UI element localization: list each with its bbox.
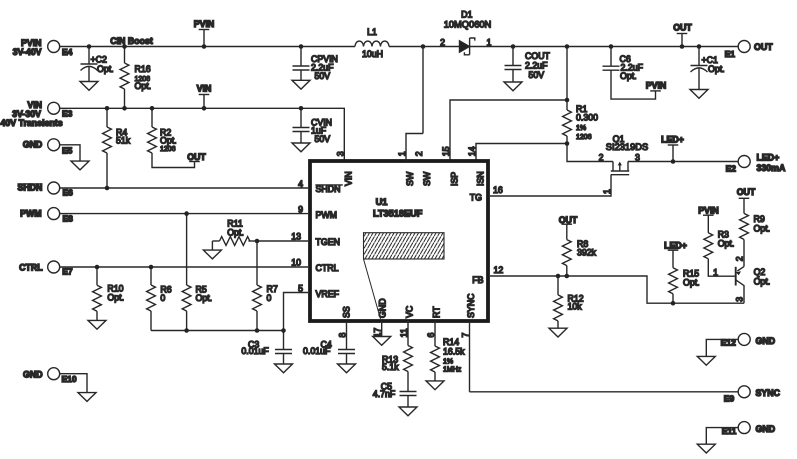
resistor R13 — [382, 346, 412, 392]
ground E5 — [71, 161, 89, 170]
svg-text:TGEN: TGEN — [316, 237, 340, 247]
terminal E8 — [20, 208, 73, 224]
wire LED+ net — [628, 161, 738, 163]
ground E12 — [697, 356, 715, 365]
svg-text:Opt.: Opt. — [196, 293, 213, 303]
wire FB net — [490, 276, 744, 303]
ground COUT — [504, 82, 522, 91]
svg-text:1: 1 — [602, 189, 612, 194]
pin 13 TGEN — [291, 232, 340, 248]
svg-text:3V-40V: 3V-40V — [13, 47, 42, 57]
wire TG net — [490, 175, 611, 196]
junction OUT stub — [680, 44, 685, 49]
wire SYNC net — [470, 391, 739, 393]
pin 3 VIN — [335, 151, 353, 186]
svg-text:CTRL: CTRL — [19, 262, 43, 272]
ground R12 — [549, 328, 567, 337]
svg-text:2: 2 — [599, 152, 604, 162]
wire VIN rail — [60, 108, 345, 161]
svg-text:OUT: OUT — [673, 22, 692, 32]
pin 8 SS — [338, 306, 352, 349]
svg-text:COUT: COUT — [525, 51, 551, 61]
capacitor C4 — [303, 340, 355, 364]
svg-text:1206: 1206 — [160, 146, 176, 153]
pin 11 VC — [399, 305, 414, 345]
svg-text:50V: 50V — [529, 70, 545, 80]
resistor R12 — [554, 276, 584, 328]
resistor R15 — [669, 250, 700, 303]
svg-text:LED+: LED+ — [664, 240, 687, 250]
svg-text:E9: E9 — [724, 394, 735, 404]
wire TGEN net — [257, 240, 308, 242]
svg-text:Opt.: Opt. — [227, 227, 244, 237]
svg-text:1: 1 — [713, 268, 718, 278]
junction R1 top rail — [565, 44, 570, 49]
junction COUT top — [511, 44, 516, 49]
svg-text:14: 14 — [467, 146, 477, 156]
ground CPVIN — [292, 80, 310, 89]
ground CVIN — [292, 143, 310, 152]
node OUT stub (R9) — [737, 187, 756, 198]
svg-text:L1: L1 — [367, 27, 377, 37]
svg-text:392k: 392k — [577, 248, 597, 258]
terminal E3 — [1, 100, 73, 128]
svg-text:50V: 50V — [315, 134, 331, 144]
capacitor C3 — [241, 331, 292, 365]
svg-text:Opt.: Opt. — [107, 293, 124, 303]
svg-text:LT3518EUF: LT3518EUF — [373, 208, 423, 218]
svg-text:E8: E8 — [63, 214, 74, 224]
diode D1 — [440, 10, 491, 55]
inductor L1 — [355, 27, 389, 59]
pin 1 SW — [397, 134, 423, 187]
pin 15 ISP — [441, 146, 460, 186]
terminal E4 — [13, 38, 73, 57]
svg-text:E5: E5 — [62, 145, 73, 155]
svg-text:FB: FB — [472, 275, 483, 285]
ground E11 — [697, 444, 715, 453]
svg-text:7: 7 — [461, 333, 471, 338]
junction C2 top — [87, 44, 92, 49]
node OUT stub (R8) — [559, 215, 578, 225]
capacitor C2 — [81, 47, 114, 82]
svg-text:PWM: PWM — [316, 210, 338, 220]
svg-text:Opt.: Opt. — [708, 64, 725, 74]
pin 9 PWM — [298, 205, 337, 221]
svg-text:PVIN: PVIN — [194, 19, 215, 29]
junction R5 bottom — [184, 328, 189, 333]
wire ISN to R1 — [476, 144, 567, 162]
svg-text:10uH: 10uH — [362, 49, 383, 59]
svg-text:Opt.: Opt. — [160, 136, 177, 146]
capacitor CPVIN — [293, 47, 338, 82]
svg-text:0: 0 — [267, 293, 272, 303]
svg-text:Opt.: Opt. — [97, 64, 114, 74]
svg-text:1MHz: 1MHz — [443, 367, 462, 374]
svg-text:RT: RT — [431, 306, 441, 318]
junction CPVIN top — [299, 44, 304, 49]
wire VREF bottom rail — [151, 330, 284, 332]
svg-text:CIN Boost: CIN Boost — [110, 36, 153, 46]
wire PVIN rail — [60, 46, 739, 48]
ground C1 — [690, 90, 708, 99]
svg-text:10: 10 — [291, 258, 301, 268]
junction CVIN top — [299, 106, 304, 111]
svg-text:OUT: OUT — [187, 152, 206, 162]
svg-text:GND: GND — [756, 336, 776, 346]
pin 16 TG — [470, 185, 503, 203]
svg-text:3: 3 — [735, 297, 745, 302]
junction R7 top — [255, 239, 260, 244]
resistor R8 — [562, 224, 596, 276]
junction LED+ — [671, 159, 676, 164]
resistor R14 — [431, 337, 466, 381]
node LED+ stub (R15) — [664, 240, 687, 250]
svg-text:GND: GND — [377, 298, 387, 318]
resistor R4 — [103, 108, 131, 188]
svg-text:13: 13 — [291, 232, 301, 242]
junction R15 bottom — [671, 301, 676, 306]
svg-text:0.01uF: 0.01uF — [303, 346, 331, 356]
capacitor COUT — [505, 47, 551, 83]
capacitor C6 — [603, 47, 656, 100]
svg-text:PVIN: PVIN — [646, 80, 667, 90]
svg-text:SYNC: SYNC — [756, 388, 781, 398]
wire E12 to ground — [706, 339, 738, 356]
ground E10 — [78, 393, 96, 402]
terminal E11 — [722, 422, 775, 436]
svg-text:0.300: 0.300 — [576, 113, 598, 123]
svg-text:SS: SS — [342, 306, 352, 318]
capacitor C1 — [691, 47, 725, 90]
ground C2 — [80, 82, 98, 91]
ground R14 — [426, 381, 444, 390]
terminal E2 — [726, 152, 786, 173]
svg-text:16: 16 — [493, 185, 503, 195]
svg-text:2.2uF: 2.2uF — [525, 61, 548, 71]
junction ISP R1 — [565, 98, 570, 103]
svg-text:VC: VC — [404, 305, 414, 318]
svg-text:PWM: PWM — [20, 209, 42, 219]
svg-text:ISN: ISN — [476, 171, 486, 186]
capacitor C5 — [373, 381, 417, 407]
ground R10 — [88, 320, 106, 329]
svg-text:Opt.: Opt. — [754, 277, 771, 287]
svg-text:Opt.: Opt. — [754, 223, 771, 233]
ground C4 — [338, 364, 356, 373]
terminal E7 — [19, 261, 73, 277]
wire E5 to ground — [60, 145, 80, 161]
svg-text:E10: E10 — [62, 374, 77, 384]
svg-text:VIN: VIN — [343, 171, 353, 186]
junction ISN R1 — [565, 141, 570, 146]
svg-text:Q2: Q2 — [754, 267, 766, 277]
svg-text:GND: GND — [23, 140, 43, 150]
svg-text:1206: 1206 — [576, 134, 592, 141]
junction C1 top — [697, 44, 702, 49]
resistor R3 — [704, 215, 735, 276]
svg-text:0: 0 — [160, 293, 165, 303]
svg-text:PVIN: PVIN — [698, 206, 719, 216]
svg-text:SW: SW — [422, 171, 432, 186]
U1 label — [373, 197, 423, 218]
U1 exposed pad — [364, 233, 445, 319]
svg-text:50V: 50V — [315, 71, 331, 81]
svg-text:OUT: OUT — [754, 42, 773, 52]
svg-text:D1: D1 — [461, 10, 472, 20]
svg-text:SYNC: SYNC — [466, 293, 476, 318]
op-amp U1 body — [310, 161, 488, 321]
wire E11 to ground — [706, 428, 738, 445]
junction C6 top — [609, 44, 614, 49]
resistor R9 — [740, 198, 771, 266]
svg-text:SI2319DS: SI2319DS — [606, 142, 648, 152]
svg-text:10MQ060N: 10MQ060N — [444, 20, 492, 30]
ground C3 — [275, 364, 293, 373]
svg-text:R16: R16 — [135, 64, 151, 74]
node VIN stub — [197, 83, 212, 108]
junction C3 VREF — [281, 328, 286, 333]
svg-text:ISP: ISP — [450, 172, 460, 186]
svg-text:15: 15 — [441, 146, 451, 156]
wire ISP to R1 — [450, 100, 567, 161]
wire CTRL net — [60, 266, 308, 268]
junction R10 top — [95, 265, 100, 270]
junction R4 bottom — [105, 186, 110, 191]
resistor R11 — [212, 218, 257, 250]
junction R2 top — [150, 106, 155, 111]
pin 6 RT — [426, 306, 441, 346]
pin 12 FB — [472, 265, 503, 285]
svg-text:3: 3 — [335, 151, 345, 156]
node PVIN stub top — [194, 19, 215, 47]
junction R7 bottom — [255, 328, 260, 333]
transistor Q2 — [713, 256, 770, 303]
wire VREF net — [284, 293, 309, 331]
junction VIN stub — [202, 106, 207, 111]
terminal E5 — [23, 139, 73, 156]
svg-text:10k: 10k — [568, 302, 583, 312]
terminal E10 — [23, 368, 77, 384]
svg-text:GND: GND — [23, 369, 43, 379]
svg-text:4.7nF: 4.7nF — [373, 389, 396, 399]
wire E10 to ground — [60, 374, 87, 393]
svg-text:1%: 1% — [576, 125, 586, 132]
svg-text:E2: E2 — [726, 163, 737, 173]
svg-text:LED+: LED+ — [661, 135, 684, 145]
junction D1 anode / SW — [421, 44, 426, 49]
node PVIN stub (R3) — [698, 206, 719, 216]
svg-text:1: 1 — [397, 151, 407, 156]
node OUT stub top — [673, 22, 692, 46]
junction R8 FB — [565, 274, 570, 279]
node OUT (R2) — [187, 152, 206, 162]
svg-text:51k: 51k — [116, 136, 131, 146]
svg-text:330mA: 330mA — [757, 163, 786, 173]
node PVIN stub (C6) — [646, 80, 667, 91]
svg-text:12: 12 — [494, 265, 504, 275]
svg-text:11: 11 — [399, 328, 409, 337]
pin 14 ISN — [467, 146, 486, 186]
wire PWM net — [60, 213, 308, 215]
svg-text:2: 2 — [735, 256, 745, 261]
svg-text:2: 2 — [414, 151, 424, 156]
svg-text:1: 1 — [487, 37, 492, 47]
svg-text:5: 5 — [298, 283, 303, 293]
resistor R2 — [148, 108, 195, 167]
transistor Q1 — [599, 134, 649, 175]
svg-text:+C2: +C2 — [91, 54, 107, 64]
svg-text:1%: 1% — [443, 358, 453, 365]
ground R11 — [203, 250, 221, 259]
capacitor CVIN — [293, 108, 333, 144]
svg-text:Opt.: Opt. — [683, 277, 700, 287]
junction R16 bottom — [122, 106, 127, 111]
svg-text:5.1k: 5.1k — [382, 362, 399, 372]
svg-text:2: 2 — [440, 37, 445, 47]
resistor R10 — [93, 267, 124, 320]
svg-text:0.01uF: 0.01uF — [241, 346, 269, 356]
svg-text:U1: U1 — [376, 197, 388, 207]
svg-text:TG: TG — [470, 192, 482, 202]
svg-text:VIN: VIN — [197, 83, 212, 93]
node LED+ stub — [661, 135, 684, 162]
junction PVIN stub — [202, 44, 207, 49]
svg-text:E7: E7 — [62, 267, 73, 277]
ground C5 — [399, 407, 417, 416]
svg-text:LED+: LED+ — [757, 152, 780, 162]
junction R5 top — [184, 211, 189, 216]
resistor R1 — [563, 47, 613, 162]
svg-text:E1: E1 — [725, 49, 736, 59]
resistor R16 — [120, 47, 151, 109]
pin 4 SHDN — [298, 179, 343, 194]
svg-text:E6: E6 — [63, 187, 74, 197]
pin 5 VREF — [298, 283, 339, 299]
terminal E12 — [721, 333, 775, 347]
svg-text:Opt.: Opt. — [135, 81, 152, 91]
pin 10 CTRL — [291, 258, 338, 274]
ground pin 17 — [373, 337, 391, 346]
svg-text:SHDN: SHDN — [316, 184, 341, 194]
svg-text:GND: GND — [756, 424, 776, 434]
pin 2 SW — [414, 47, 432, 187]
svg-text:SW: SW — [405, 171, 415, 186]
terminal E9 — [724, 386, 781, 404]
svg-text:Opt.: Opt. — [718, 239, 735, 249]
junction R12 FB — [556, 274, 561, 279]
svg-text:CTRL: CTRL — [316, 263, 339, 273]
svg-text:9: 9 — [298, 205, 303, 215]
svg-text:8: 8 — [338, 333, 348, 338]
svg-text:16.5k: 16.5k — [443, 347, 465, 357]
svg-text:OUT: OUT — [737, 187, 756, 197]
terminal E1 — [725, 41, 774, 60]
svg-text:VREF: VREF — [316, 289, 340, 299]
svg-text:E4: E4 — [62, 47, 73, 57]
junction R4 top — [105, 106, 110, 111]
svg-text:4: 4 — [298, 179, 303, 189]
pin 17 GND — [373, 298, 388, 337]
junction R16 top — [122, 44, 127, 49]
svg-text:6: 6 — [426, 333, 436, 338]
terminal E6 — [17, 182, 73, 197]
svg-text:40V Transients: 40V Transients — [1, 118, 63, 128]
svg-text:E3: E3 — [62, 109, 73, 119]
resistor R5 — [182, 214, 212, 331]
resistor R6 — [147, 267, 172, 331]
pin 7 SYNC — [461, 293, 476, 392]
wire SHDN net — [60, 187, 308, 189]
svg-text:Opt.: Opt. — [620, 71, 637, 81]
junction R6 top — [149, 265, 154, 270]
resistor R7 — [253, 241, 278, 331]
